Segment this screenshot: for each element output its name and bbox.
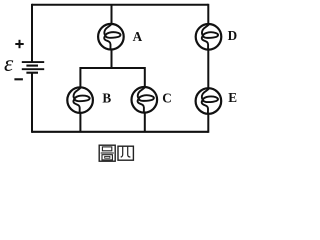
wire bulb B to bottom rail [79, 112, 81, 131]
caption character SI (four) [118, 146, 133, 160]
wire bulb C to bottom rail [144, 112, 146, 132]
wire bulb E to bottom rail [207, 113, 209, 133]
wire bottom rail [32, 131, 208, 133]
minus sign battery polarity [14, 78, 23, 80]
battery cell plate long top [22, 61, 44, 63]
wire battery branch lower [31, 73, 33, 133]
plus sign battery polarity [15, 40, 23, 48]
battery cell plate long lower [22, 68, 44, 70]
wire split bar to bulb B [79, 67, 81, 88]
svg-text:C: C [162, 91, 172, 106]
svg-text:D: D [228, 28, 238, 43]
wire battery branch upper [31, 4, 33, 62]
bulb A [98, 24, 124, 50]
wire bulb D to bulb E [207, 49, 209, 89]
bulb E [196, 88, 222, 114]
wire top rail to bulb A [111, 5, 113, 25]
bulb C [132, 87, 158, 113]
wire split bar B-C junction [80, 67, 144, 69]
caption character TU (figure) [99, 145, 115, 161]
bulb D [196, 24, 222, 50]
wire split bar to bulb C [144, 67, 146, 88]
battery cell plate short upper [26, 65, 38, 67]
bulb B [67, 87, 93, 113]
battery cell plate short bottom [26, 72, 38, 74]
svg-text:ε: ε [4, 51, 14, 77]
svg-text:A: A [133, 29, 143, 44]
svg-text:E: E [228, 90, 237, 105]
svg-text:B: B [102, 91, 111, 106]
wire top rail [32, 4, 208, 6]
wire top rail to bulb D [207, 4, 209, 25]
wire bulb A to split bar [111, 49, 113, 68]
